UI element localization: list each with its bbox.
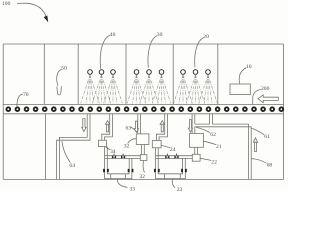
pump flanges right unit 2 [181,169,187,173]
svg-text:20: 20 [203,34,209,40]
svg-text:33: 33 [130,187,136,191]
label 50 [57,65,67,86]
svg-text:64: 64 [69,163,75,169]
label 64 [62,141,75,169]
label 10 [239,64,252,84]
label 40 [100,32,115,69]
label 61 [252,128,270,139]
svg-text:50: 50 [61,65,67,71]
left drop pipe unit 1 [105,147,108,169]
tank box 32 [136,134,149,145]
label 100 [2,1,48,22]
label 70 [17,92,29,106]
nozzle (bank 30) [134,70,139,75]
drain duct right [195,124,251,179]
label 34 [106,147,116,155]
pump flanges left unit 1 [103,169,109,173]
svg-text:70: 70 [23,92,29,98]
svg-text:68: 68 [267,162,273,168]
manifold unit 1 [105,156,140,159]
downcomer pipe 62 [192,114,195,134]
chamber divider wall 5 [217,44,219,104]
filter unit 1 [105,172,132,178]
svg-text:24: 24 [170,147,176,153]
label 23 (filter) [172,179,182,193]
svg-text:30: 30 [157,32,163,38]
up-flow arrow 61 [253,138,257,152]
svg-text:63: 63 [126,126,132,132]
nozzle (bank 30) [147,70,152,75]
label 30 [148,32,163,67]
chamber divider wall 3 [125,44,127,104]
filter unit 2 [156,172,186,178]
tank box 21 [190,133,204,147]
label 24 [161,145,175,153]
up-flow arrow unit 2 [160,121,164,132]
riser pipe unit 2 [156,114,167,141]
valve V2b [174,154,178,159]
right drop pipe unit 2 [183,158,186,168]
nozzle (bank 20) [181,70,186,75]
svg-text:21: 21 [216,144,222,150]
conveyor bottom rail [3,113,283,115]
pump box (lower) unit 1 [140,155,147,161]
chamber divider wall 1 [43,44,45,104]
pipe 32 to 31 [142,145,145,155]
nozzle (bank 40) [88,70,93,75]
down-flow arrow in duct 64 [82,119,86,132]
chamber divider wall 4 [172,44,174,104]
direction block arrow 200 [258,95,278,103]
svg-text:23: 23 [177,187,183,191]
valve V1b [121,154,125,159]
valve V1a [112,154,116,159]
svg-text:200: 200 [261,86,270,92]
pump box 22 [192,154,200,161]
duct 64 [57,114,90,180]
nozzle (bank 30) [159,70,164,75]
svg-text:32: 32 [139,174,145,180]
nozzle (bank 40) [99,70,104,75]
downcomer pipe 63 [138,114,141,134]
nozzle (bank 40) [111,70,116,75]
left drop pipe unit 2 [156,148,159,169]
riser pipe unit 1 [102,114,113,140]
pump flanges right unit 1 [128,169,134,173]
conveyor top rail [3,103,283,105]
chamber divider wall 2 [77,44,79,104]
valve V2a [165,154,169,159]
svg-text:61: 61 [264,134,270,140]
lower wall under divider 1 [45,114,47,180]
duct branch risers [210,114,213,124]
svg-text:100: 100 [2,1,11,7]
sensor 50 (pouch) [57,86,62,95]
label 32 (tank) [124,139,136,150]
machine housing outline [3,44,283,179]
manifold unit 2 [156,156,192,159]
label 68 [252,159,273,169]
valve box 34 [99,140,107,146]
nozzle (bank 20) [193,70,198,75]
label 62 [196,127,216,137]
pump flanges left unit 2 [154,169,160,173]
label 21 [204,141,222,150]
svg-text:40: 40 [110,32,116,38]
label 200 [253,86,270,104]
svg-text:10: 10 [246,64,252,70]
svg-text:34: 34 [110,149,116,155]
label 33 (filter) [117,179,135,193]
down-flow arrow 62 [188,120,192,132]
svg-text:32: 32 [124,143,130,149]
label 63 [126,126,136,132]
right drop pipe unit 1 [129,158,132,168]
down-flow arrow 63 [134,121,138,132]
nozzle (bank 20) [206,70,211,75]
label 20 [195,34,209,67]
valve box 24 [152,140,161,147]
conveyor rollers [6,107,283,111]
label 32 (pump) [139,161,145,180]
svg-text:22: 22 [211,160,217,166]
controller box 10 [230,84,250,95]
label 22 [200,158,217,165]
pipe 21 to 22 [195,147,198,154]
svg-text:62: 62 [210,132,216,138]
up-flow arrow unit 1 [105,121,109,132]
